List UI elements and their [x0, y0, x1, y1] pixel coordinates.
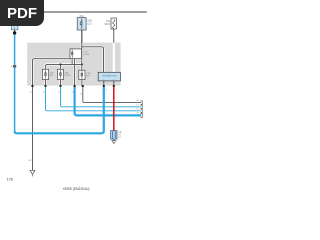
wire: F3 to connector [81, 80, 83, 86]
svg-text:7.5A: 7.5A [83, 50, 88, 53]
wire: F1 to connector [45, 80, 47, 86]
top rule [0, 11, 147, 12]
battery [111, 131, 123, 140]
svg-text:1H: 1H [136, 109, 139, 111]
fuse box (white, inside relay block) [70, 49, 90, 59]
wire: gray W-B drop to ground [32, 87, 34, 170]
wire: F2 to connector [60, 80, 62, 86]
svg-text:RY: RY [118, 137, 121, 139]
ground under battery [112, 139, 116, 143]
fusible link FL (top right) [104, 18, 116, 29]
wire: black drop from fuse to relay block w/ arrow [77, 30, 83, 47]
PDF badge [0, 0, 44, 26]
ground G1 [29, 160, 35, 176]
wire: thick blue from relay down, left to left wire [15, 87, 104, 133]
svg-text:MAIN: MAIN [104, 23, 110, 26]
node B+ left connector box [11, 26, 18, 35]
fuse F blue highlighted box (top center) [77, 14, 93, 30]
svg-text:BAT: BAT [118, 131, 123, 134]
svg-text:(2J): (2J) [87, 22, 91, 25]
relay R (blue highlighted) [98, 72, 120, 81]
wire: red battery feed [113, 87, 115, 131]
svg-text:7.5A: 7.5A [86, 72, 91, 75]
svg-text:YARIS (EM21K4U): YARIS (EM21K4U) [63, 187, 90, 191]
bus end terminators [141, 101, 143, 118]
svg-text:2: 2 [106, 90, 108, 92]
fuse F1 [42, 69, 54, 79]
wire: left main cyan vertical [14, 35, 16, 132]
wire: thick cyan bus C [75, 87, 141, 115]
wire: L1 bus from fuse box bottom-left going left, down at x=32.5 [33, 59, 71, 86]
relay block (gray box) [27, 43, 120, 86]
svg-text:INTEGRATION R: INTEGRATION R [102, 75, 117, 78]
svg-text:W: W [80, 94, 82, 96]
wire casings (white halo inside relay block) [33, 43, 114, 85]
svg-text:EC: EC [29, 160, 32, 162]
wire labels below connectors [30, 90, 118, 96]
splice marker on left wire [11, 65, 16, 68]
wire: branch to relay (horizontal inside box) [82, 47, 104, 73]
wire: cyan bus H1 [46, 87, 142, 111]
bottom connectors of relay block [31, 85, 115, 87]
svg-text:B: B [43, 92, 45, 94]
svg-text:ETCS: ETCS [65, 75, 71, 77]
fuse F2 [57, 69, 70, 79]
wire: thick cyan feed stub [74, 59, 76, 86]
svg-text:1: 1 [116, 90, 118, 92]
bus end labels [136, 100, 139, 114]
svg-text:10A: 10A [65, 72, 69, 75]
svg-text:178: 178 [7, 177, 13, 181]
wire: relay pins down [103, 81, 105, 86]
wire: cyan bus H2 [61, 87, 142, 107]
svg-text:1K: 1K [136, 113, 139, 115]
svg-text:DOME: DOME [83, 54, 90, 56]
wire: gray bus H0 [83, 87, 141, 103]
svg-text:EFI: EFI [50, 75, 54, 77]
svg-text:1G: 1G [136, 105, 139, 107]
svg-text:15A: 15A [50, 72, 54, 75]
junction [81, 46, 82, 47]
svg-text:B: B [58, 92, 60, 94]
svg-text:W: W [30, 92, 32, 94]
wire: main vertical through fuse box down [81, 31, 83, 71]
fuse F3 (on main vertical) [79, 70, 91, 79]
svg-text:1E: 1E [136, 100, 139, 102]
wire: fusible link drop to relay [113, 29, 115, 73]
wire: L2 bus feeding fuses F1 F2 [46, 64, 82, 69]
junction on main vertical [81, 63, 83, 65]
